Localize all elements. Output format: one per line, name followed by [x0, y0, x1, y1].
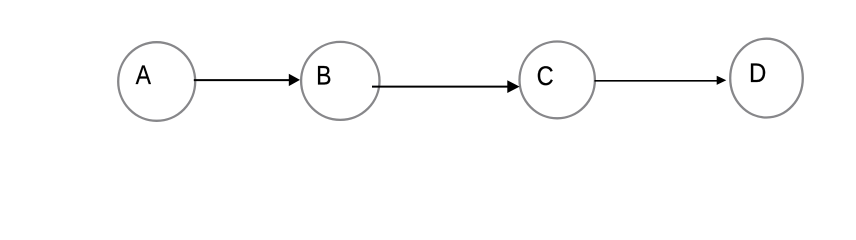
svg-text:D: D: [749, 59, 766, 89]
svg-text:A: A: [136, 61, 152, 91]
svg-text:B: B: [316, 61, 331, 91]
svg-text:C: C: [537, 61, 554, 91]
